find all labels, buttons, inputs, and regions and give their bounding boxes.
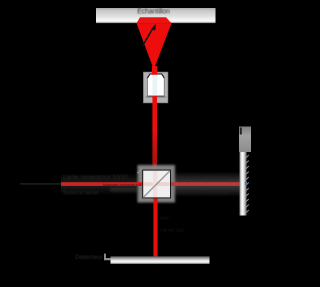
sample bar (top) (96, 8, 216, 23)
svg-text:Détecteur: Détecteur (75, 254, 104, 261)
dark top outline of objective (147, 74, 164, 78)
beam out of objective, dimming toward beamsplitter (152, 96, 157, 171)
svg-text:Source laser: Source laser (63, 190, 100, 197)
pale beam bands inside cube (144, 182, 170, 186)
arrow pointing to focal point (143, 29, 153, 47)
objective lens body (white dome, flat top with chamfered corners) (148, 74, 165, 96)
pointer tick at cube upper-left (137, 169, 142, 174)
faint source line far left (20, 183, 61, 185)
smudge under beam near cube (110, 187, 138, 192)
glow band around right arm beam (171, 172, 243, 198)
beamsplitter cube (143, 170, 171, 198)
beam into objective (152, 66, 157, 75)
cube diagonal (143, 171, 170, 198)
bright L mark at detector left (104, 254, 111, 261)
mirror hatching (246, 155, 249, 213)
vertical beam (cube to detector) (153, 198, 157, 257)
beam focus inside sample (red trapezoid) (137, 17, 172, 23)
reference mirror bar (240, 152, 247, 216)
horizontal beam (left arm, from source) (61, 182, 143, 186)
glow band around left arm beam (61, 174, 138, 196)
detector bar (bottom) (111, 256, 210, 264)
svg-text:Translation du miroir: Translation du miroir (176, 190, 230, 196)
reference mirror mount block (239, 127, 251, 153)
blue speck where beam meets mirror (245, 182, 247, 185)
objective mount (gray rect) (144, 72, 168, 103)
horizontal beam (right arm, to mirror) (170, 182, 240, 186)
beamsplitter halo (138, 165, 176, 203)
glass column tint inside objective (153, 75, 158, 96)
svg-text:vers: vers (160, 216, 171, 222)
focused beam cone (sample to objective) (137, 23, 172, 69)
svg-text:balayage profondeur z: balayage profondeur z (103, 183, 141, 187)
objective bottom flange (145, 96, 166, 98)
svg-text:Miroir de référence: Miroir de référence (176, 175, 228, 182)
svg-text:Lame séparatrice 50/50: Lame séparatrice 50/50 (63, 174, 129, 181)
svg-text:Échantillon: Échantillon (137, 7, 170, 16)
svg-text:détection: détection (160, 228, 184, 234)
